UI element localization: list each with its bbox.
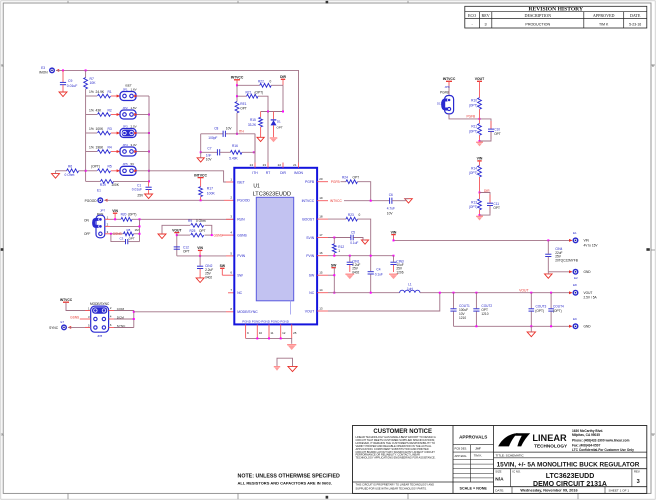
svg-text:C3: C3 bbox=[120, 236, 124, 240]
capacitor CIN1 bbox=[347, 256, 361, 275]
resistor R25 bbox=[177, 229, 212, 237]
net flag SW bbox=[220, 264, 226, 275]
svg-text:0.1uF: 0.1uF bbox=[350, 241, 358, 245]
capacitor CIN2 bbox=[197, 256, 213, 280]
net flag VIN bbox=[112, 209, 118, 219]
wire RT pin bbox=[267, 112, 269, 163]
resistor R19 bbox=[86, 180, 149, 188]
svg-text:ITH: ITH bbox=[252, 171, 258, 175]
svg-text:23: 23 bbox=[263, 163, 267, 167]
capacitor C4 bbox=[368, 268, 383, 293]
turret E3 IMON bbox=[39, 66, 59, 75]
svg-text:25V: 25V bbox=[137, 193, 144, 197]
svg-text:R24: R24 bbox=[342, 176, 348, 180]
wire bbox=[137, 114, 149, 116]
svg-text:SW: SW bbox=[309, 274, 315, 278]
wire mode bus bbox=[133, 311, 135, 328]
svg-text:VIN: VIN bbox=[477, 157, 483, 161]
capacitor CIN4 bbox=[545, 240, 578, 271]
svg-text:VOUT: VOUT bbox=[172, 228, 182, 232]
svg-text:10V: 10V bbox=[387, 211, 394, 215]
junction bbox=[200, 199, 202, 201]
svg-text:25: 25 bbox=[293, 331, 297, 335]
wire ITH node bbox=[228, 133, 255, 135]
svg-text:E2: E2 bbox=[574, 276, 578, 280]
capacitor COUT2 bbox=[473, 293, 492, 327]
svg-text:5-23-16: 5-23-16 bbox=[629, 22, 641, 26]
wire pin19 INTVCC bbox=[317, 200, 389, 202]
svg-text:IMON: IMON bbox=[39, 71, 48, 75]
net label GSNS bbox=[70, 315, 91, 319]
svg-text:1.5V: 1.5V bbox=[131, 106, 137, 110]
svg-text:Milpitas, CA 95035: Milpitas, CA 95035 bbox=[572, 433, 600, 437]
svg-text:E7: E7 bbox=[61, 320, 65, 324]
junction bbox=[256, 337, 281, 339]
wire pin3 bbox=[105, 233, 124, 235]
inductor L1 bbox=[400, 283, 420, 293]
svg-text:REVISION HISTORY: REVISION HISTORY bbox=[529, 7, 584, 13]
wire VOUT bus bbox=[420, 292, 572, 294]
svg-text:TITLE: SCHEMATIC: TITLE: SCHEMATIC bbox=[496, 454, 525, 458]
wire pin16 PVIN bbox=[317, 255, 393, 257]
ground bbox=[545, 272, 553, 279]
net flag VOUT bbox=[475, 77, 485, 98]
resistor RE1 OPT bbox=[235, 102, 247, 134]
wire bbox=[176, 233, 178, 256]
resistor R23 bbox=[346, 213, 361, 221]
svg-text:Wednesday, November 09, 2016: Wednesday, November 09, 2016 bbox=[520, 489, 577, 493]
svg-text:SVIN: SVIN bbox=[306, 236, 314, 240]
svg-text:19: 19 bbox=[319, 196, 323, 200]
svg-text:IMON: IMON bbox=[294, 171, 303, 175]
ground bbox=[270, 137, 278, 142]
pin7 stub bbox=[228, 292, 234, 294]
svg-text:VIN: VIN bbox=[391, 230, 397, 234]
wire bbox=[68, 326, 90, 328]
svg-text:(OPT): (OPT) bbox=[469, 205, 478, 209]
junction bbox=[148, 180, 150, 182]
svg-text:SUPPLIED FOR USE WITH LINEAR T: SUPPLIED FOR USE WITH LINEAR TECHNOLOGY … bbox=[356, 486, 427, 490]
svg-text:R13: R13 bbox=[471, 200, 477, 204]
svg-text:E8: E8 bbox=[573, 283, 577, 287]
svg-text:RUN: RUN bbox=[237, 218, 245, 222]
resistor R16 bbox=[229, 134, 255, 161]
junction bbox=[439, 292, 552, 294]
svg-text:OPT: OPT bbox=[493, 206, 500, 210]
svg-text:1%: 1% bbox=[89, 90, 94, 94]
ground bbox=[405, 199, 413, 203]
svg-text:(OPT): (OPT) bbox=[535, 309, 544, 313]
svg-text:OPT: OPT bbox=[277, 126, 283, 130]
svg-text:REV.: REV. bbox=[634, 469, 640, 473]
net label GSNS bbox=[214, 233, 223, 237]
svg-text:OPT: OPT bbox=[240, 107, 247, 111]
net label DIR bbox=[484, 189, 490, 193]
svg-text:NOTE: UNLESS OTHERWISE SPECIFI: NOTE: UNLESS OTHERWISE SPECIFIED bbox=[238, 474, 340, 480]
svg-text:JP3: JP3 bbox=[123, 124, 129, 128]
svg-text:R5: R5 bbox=[108, 165, 112, 169]
wire pin17 SVIN bbox=[317, 237, 351, 239]
svg-text:R11: R11 bbox=[471, 125, 477, 129]
junction bbox=[114, 218, 116, 220]
wire bbox=[137, 95, 149, 97]
resistor R1 bbox=[86, 90, 119, 98]
junction bbox=[110, 233, 112, 235]
svg-text:22: 22 bbox=[278, 163, 282, 167]
svg-text:NC: NC bbox=[237, 291, 242, 295]
svg-text:1%: 1% bbox=[89, 127, 94, 131]
resistor R9 bbox=[162, 219, 212, 235]
wire DIR rail bbox=[282, 85, 284, 111]
net flag INTVCC bbox=[60, 298, 90, 311]
svg-text:100pF: 100pF bbox=[208, 136, 217, 140]
wire PGOOD bbox=[105, 199, 235, 201]
ground bbox=[197, 152, 204, 162]
svg-text:E3: E3 bbox=[41, 66, 45, 70]
net label GSNS bbox=[113, 232, 122, 236]
svg-text:(OPT): (OPT) bbox=[91, 165, 100, 169]
junction bbox=[148, 151, 150, 153]
svg-text:(OPT): (OPT) bbox=[255, 90, 264, 94]
svg-text:R21: R21 bbox=[246, 90, 252, 94]
svg-text:4V to 15V: 4V to 15V bbox=[584, 243, 599, 247]
svg-text:10V: 10V bbox=[226, 127, 233, 131]
svg-text:0.1uF: 0.1uF bbox=[375, 273, 383, 277]
wire to pin4 bbox=[222, 234, 234, 236]
U1 right pin names and numbers bbox=[302, 177, 323, 313]
resistor R15 bbox=[248, 112, 263, 138]
net flag DIR bbox=[280, 75, 286, 85]
svg-text:1210: 1210 bbox=[481, 312, 488, 316]
svg-text:R19: R19 bbox=[100, 183, 106, 187]
svg-text:14: 14 bbox=[319, 288, 323, 292]
jumper JP7 RUN bbox=[84, 208, 109, 238]
junction bbox=[85, 69, 87, 71]
junction bbox=[139, 218, 141, 220]
svg-text:C4: C4 bbox=[376, 268, 380, 272]
net label PGFB bbox=[331, 180, 340, 184]
note text bbox=[238, 474, 340, 486]
jumper JP5 bbox=[117, 162, 138, 175]
capacitor COUT3 bbox=[529, 293, 547, 327]
svg-text:JAF: JAF bbox=[475, 446, 481, 450]
junction bbox=[211, 234, 213, 236]
svg-text:1210: 1210 bbox=[459, 316, 466, 320]
svg-text:JP1: JP1 bbox=[123, 87, 129, 91]
junction bbox=[199, 255, 201, 257]
wire pin18 BOOST bbox=[317, 218, 346, 220]
svg-text:10V: 10V bbox=[206, 158, 213, 162]
svg-text:0.01uF: 0.01uF bbox=[132, 188, 142, 192]
svg-text:11: 11 bbox=[270, 331, 273, 335]
turret E8 VOUT bbox=[569, 283, 597, 299]
svg-text:C9: C9 bbox=[68, 79, 72, 83]
ground bbox=[476, 216, 483, 221]
svg-text:PGFB: PGFB bbox=[440, 91, 449, 95]
jumper JP2 bbox=[117, 106, 138, 119]
svg-text:LTC Confidential-For Customer: LTC Confidential-For Customer Use Only bbox=[572, 448, 634, 452]
svg-text:2.5V / 5A: 2.5V / 5A bbox=[584, 296, 598, 300]
svg-text:0: 0 bbox=[359, 213, 361, 217]
capacitor C12 bbox=[174, 245, 190, 253]
wire pin15 SW bbox=[317, 274, 334, 276]
wire ISET to pin1 bbox=[149, 171, 234, 182]
net flag INTVCC bbox=[443, 77, 456, 95]
diode D1 bbox=[271, 112, 283, 138]
capacitor COUT1 bbox=[450, 293, 470, 327]
junction bbox=[236, 84, 238, 97]
svg-text:E1: E1 bbox=[573, 231, 577, 235]
wire bbox=[449, 114, 480, 119]
wire pin2 bbox=[105, 225, 140, 227]
svg-text:SIZE: SIZE bbox=[495, 469, 501, 473]
svg-text:0 Ohm: 0 Ohm bbox=[196, 219, 206, 223]
svg-text:1.6V: 1.6V bbox=[131, 87, 137, 91]
svg-text:15VIN, +/- 5A MONOLITHIC BUCK: 15VIN, +/- 5A MONOLITHIC BUCK REGULATOR bbox=[497, 461, 640, 468]
wire right ladder bus bbox=[148, 96, 150, 181]
svg-text:DIR: DIR bbox=[280, 75, 286, 79]
svg-text:1%: 1% bbox=[89, 145, 94, 149]
svg-text:R8: R8 bbox=[127, 228, 131, 232]
svg-text:LTC3623EUDD: LTC3623EUDD bbox=[253, 191, 291, 197]
svg-text:R10: R10 bbox=[471, 99, 477, 103]
turret E9 GND bbox=[569, 317, 591, 330]
ground bbox=[361, 240, 368, 244]
svg-text:R1: R1 bbox=[108, 90, 112, 94]
resistor R17 bbox=[199, 178, 216, 201]
svg-text:MODE/SYNC: MODE/SYNC bbox=[237, 310, 258, 314]
wire IMON rail bbox=[56, 70, 299, 162]
net flag VIN bbox=[391, 230, 397, 240]
svg-text:(OPT): (OPT) bbox=[128, 212, 137, 216]
junction bbox=[148, 170, 150, 172]
ground bbox=[196, 278, 204, 283]
svg-text:OPT: OPT bbox=[129, 236, 135, 240]
resistor R11 bbox=[469, 119, 482, 141]
svg-text:SYNC: SYNC bbox=[49, 326, 59, 330]
svg-text:1M: 1M bbox=[135, 228, 140, 232]
svg-text:R23: R23 bbox=[348, 213, 354, 217]
svg-text:APPROVALS: APPROVALS bbox=[459, 435, 487, 440]
svg-text:(OPT): (OPT) bbox=[553, 309, 562, 313]
jumper JP1 bbox=[117, 84, 138, 101]
resistor R3 bbox=[86, 127, 119, 135]
svg-text:APPROVED: APPROVED bbox=[593, 13, 615, 18]
wire pin13 VOUT bbox=[317, 293, 440, 311]
svg-text:24: 24 bbox=[250, 163, 254, 167]
svg-text:GSNS: GSNS bbox=[214, 233, 223, 237]
wire bbox=[357, 182, 370, 201]
net label INTVCC bbox=[330, 199, 343, 203]
jumper JP4 bbox=[117, 143, 138, 156]
resistor R8 bbox=[124, 228, 140, 236]
svg-text:0402: 0402 bbox=[205, 275, 212, 279]
svg-text:PCB DES.: PCB DES. bbox=[455, 447, 468, 451]
title block bbox=[353, 426, 647, 494]
ground bbox=[288, 366, 297, 371]
svg-text:(OPT): (OPT) bbox=[469, 171, 478, 175]
svg-text:ON: ON bbox=[84, 219, 89, 223]
op-amp U1 LTC3623EUDD block bbox=[234, 168, 317, 325]
svg-text:100K: 100K bbox=[96, 127, 105, 131]
capacitor C11 bbox=[480, 193, 501, 216]
junction bbox=[267, 111, 284, 113]
junction bbox=[479, 192, 481, 194]
svg-text:18: 18 bbox=[319, 215, 323, 219]
svg-text:SW: SW bbox=[237, 274, 243, 278]
wire bbox=[548, 271, 571, 273]
junction bbox=[200, 151, 255, 153]
ground bbox=[52, 171, 60, 178]
junction bbox=[176, 234, 178, 236]
svg-text:INTVCC: INTVCC bbox=[443, 77, 456, 81]
svg-text:TECHNOLOGY: TECHNOLOGY bbox=[534, 443, 568, 448]
capacitor CIN3 bbox=[390, 256, 403, 275]
resistor R2 bbox=[86, 108, 119, 116]
svg-text:INTVCC: INTVCC bbox=[194, 173, 207, 177]
ground bbox=[527, 326, 535, 336]
svg-text:THIS CIRCUIT IS PROPRIETARY TO: THIS CIRCUIT IS PROPRIETARY TO LINEAR TE… bbox=[356, 483, 435, 487]
ground bbox=[59, 92, 67, 97]
wire left comp rail bbox=[200, 134, 202, 153]
svg-text:VIN: VIN bbox=[112, 209, 118, 213]
svg-text:196K: 196K bbox=[96, 145, 105, 149]
U1 top pins ITH RT DIR IMON bbox=[250, 163, 304, 175]
junction bbox=[148, 114, 150, 116]
svg-text:ITH: ITH bbox=[239, 129, 245, 133]
wire gnd tie bbox=[277, 358, 293, 366]
junction bbox=[370, 200, 372, 202]
svg-text:0: 0 bbox=[270, 79, 272, 83]
net flag INTVCC bbox=[231, 76, 244, 80]
svg-text:E1: E1 bbox=[97, 189, 101, 193]
svg-text:SHEET 1 OF 1: SHEET 1 OF 1 bbox=[609, 488, 630, 492]
svg-text:C8: C8 bbox=[214, 127, 218, 131]
svg-text:OFF: OFF bbox=[84, 232, 90, 236]
capacitor C9 bbox=[60, 70, 77, 91]
capacitor C3 bbox=[111, 234, 140, 244]
ground bbox=[158, 234, 166, 239]
junction bbox=[333, 255, 394, 257]
svg-text:3.3V: 3.3V bbox=[131, 143, 137, 147]
svg-text:R2: R2 bbox=[108, 108, 112, 112]
svg-text:DESCRIPTION: DESCRIPTION bbox=[524, 13, 551, 18]
wire PGND bus bbox=[246, 338, 292, 343]
wire boost drop bbox=[357, 219, 370, 271]
svg-text:U1: U1 bbox=[253, 184, 260, 190]
jumper JP6 PGFB bbox=[437, 85, 454, 114]
svg-text:TECHNOLOGY APPLICATIONS ENGINE: TECHNOLOGY APPLICATIONS ENGINEERING FOR … bbox=[356, 456, 436, 460]
svg-text:R6: R6 bbox=[68, 164, 72, 168]
svg-text:RT: RT bbox=[266, 171, 270, 175]
svg-text:JP2: JP2 bbox=[123, 106, 129, 110]
svg-text:LINEAR: LINEAR bbox=[532, 433, 567, 443]
wire RT node bbox=[261, 111, 283, 113]
resistor R14 bbox=[469, 166, 482, 193]
svg-text:INTVCC: INTVCC bbox=[60, 298, 73, 302]
svg-text:DATE:: DATE: bbox=[495, 488, 504, 492]
svg-text:BOOST: BOOST bbox=[302, 217, 314, 221]
junction bbox=[479, 214, 481, 216]
svg-text:21: 21 bbox=[293, 163, 297, 167]
svg-text:SW: SW bbox=[220, 264, 226, 268]
svg-text:43K: 43K bbox=[96, 108, 103, 112]
capacitor C1 bbox=[132, 181, 152, 197]
wire bbox=[137, 151, 149, 153]
svg-text:12: 12 bbox=[282, 331, 286, 335]
svg-text:NC: NC bbox=[309, 291, 314, 295]
resistor R6 bbox=[56, 164, 86, 177]
net flag VIN bbox=[197, 246, 203, 256]
svg-text:3: 3 bbox=[485, 22, 487, 26]
svg-text:R20: R20 bbox=[121, 212, 127, 216]
svg-text:R25: R25 bbox=[190, 229, 196, 233]
svg-text:VOUT: VOUT bbox=[584, 291, 593, 295]
svg-text:Phone: (408)432-1900 www.lin: Phone: (408)432-1900 www.linear.com bbox=[572, 438, 630, 442]
svg-text:2.5V: 2.5V bbox=[131, 124, 137, 128]
svg-text:4.7uF: 4.7uF bbox=[387, 207, 395, 211]
svg-text:RE1: RE1 bbox=[240, 102, 246, 106]
svg-text:PGFB: PGFB bbox=[331, 180, 340, 184]
svg-text:TIM K: TIM K bbox=[599, 22, 609, 26]
svg-text:OPT: OPT bbox=[353, 176, 360, 180]
wire bbox=[105, 218, 121, 220]
ground bbox=[257, 137, 264, 141]
junction bbox=[139, 225, 141, 227]
svg-text:R3: R3 bbox=[108, 127, 112, 131]
junction bbox=[139, 233, 141, 235]
svg-text:JP4: JP4 bbox=[123, 143, 129, 147]
svg-text:(OPT): (OPT) bbox=[469, 129, 478, 133]
svg-text:E9: E9 bbox=[573, 317, 577, 321]
svg-text:5.49K: 5.49K bbox=[229, 157, 238, 161]
svg-text:L1: L1 bbox=[408, 283, 412, 287]
svg-text:ISET: ISET bbox=[237, 180, 245, 184]
svg-text:R17: R17 bbox=[207, 187, 213, 191]
wire COUT gnd rail bbox=[454, 325, 572, 327]
junction bbox=[62, 69, 64, 71]
capacitor C7 bbox=[201, 147, 231, 162]
svg-text:D1: D1 bbox=[277, 120, 281, 124]
jumper JP3 bbox=[117, 124, 138, 137]
svg-text:JP6: JP6 bbox=[445, 85, 451, 89]
svg-text:VOUT: VOUT bbox=[305, 309, 314, 313]
svg-text:1%: 1% bbox=[89, 108, 94, 112]
svg-text:OPT: OPT bbox=[183, 249, 190, 253]
wire pin14 bbox=[317, 292, 400, 294]
svg-text:IC NO.: IC NO. bbox=[512, 469, 521, 473]
wire PVIN pin5 bbox=[177, 255, 235, 257]
svg-text:TIM K.: TIM K. bbox=[474, 454, 483, 458]
svg-text:OPT: OPT bbox=[199, 229, 206, 233]
ground bbox=[476, 142, 483, 147]
svg-text:GSNS: GSNS bbox=[237, 233, 247, 237]
svg-text:JP5: JP5 bbox=[123, 162, 129, 166]
svg-text:DIR: DIR bbox=[280, 171, 286, 175]
net label VOUT bbox=[519, 288, 528, 292]
wire ITH pin bbox=[254, 134, 256, 163]
resistor R10 bbox=[469, 98, 482, 119]
svg-text:R4: R4 bbox=[108, 145, 112, 149]
U1 left pin names and numbers bbox=[230, 177, 258, 314]
resistor R22 bbox=[237, 79, 283, 87]
junction bbox=[333, 237, 335, 239]
svg-text:VOUT: VOUT bbox=[519, 288, 528, 292]
resistor R21 bbox=[237, 90, 268, 111]
svg-text:0 Ohm: 0 Ohm bbox=[65, 173, 75, 177]
svg-text:R16: R16 bbox=[232, 144, 238, 148]
svg-text:LTC3623EUDD: LTC3623EUDD bbox=[546, 473, 595, 480]
